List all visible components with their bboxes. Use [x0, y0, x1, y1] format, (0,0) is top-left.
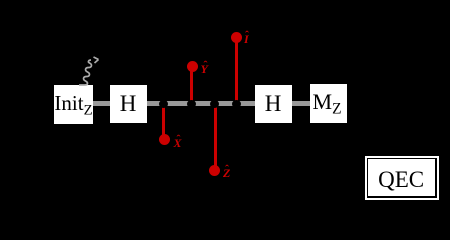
error line Z — [214, 103, 217, 171]
wire — [146, 101, 255, 106]
error line Y — [190, 66, 193, 104]
junction dot 1 — [159, 100, 168, 108]
gate H1 — [110, 85, 147, 123]
error dot Y — [187, 61, 198, 72]
wire — [93, 101, 110, 106]
error line I — [235, 37, 238, 104]
error label X — [174, 137, 182, 149]
error dot X — [159, 134, 170, 145]
error line X — [162, 103, 165, 140]
error label I — [244, 33, 249, 45]
junction dot 3 — [210, 100, 219, 108]
error label Y — [201, 63, 208, 75]
gate H2 — [255, 85, 292, 123]
error label Z — [223, 167, 230, 179]
gate M_Z — [310, 84, 348, 123]
junction dot 4 — [232, 100, 241, 108]
gate Init_Z — [54, 85, 93, 124]
wavy decay arrow — [76, 54, 104, 88]
junction dot 2 — [187, 100, 196, 108]
error dot I — [231, 32, 242, 43]
wire — [291, 101, 310, 106]
error dot Z — [209, 165, 220, 176]
QEC framed box — [365, 156, 439, 200]
